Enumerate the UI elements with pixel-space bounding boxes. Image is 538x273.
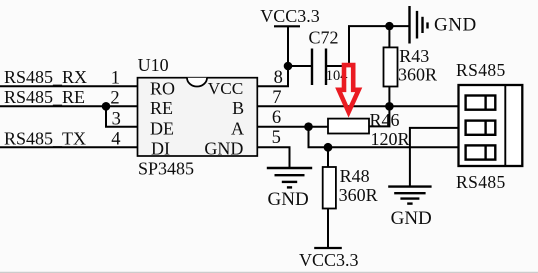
wire pin 5 to ground: [257, 147, 289, 168]
wire connector middle pin to ground: [410, 128, 459, 187]
svg-text:RS485_RE: RS485_RE: [4, 87, 85, 107]
svg-text:SP3485: SP3485: [138, 159, 194, 179]
svg-text:B: B: [232, 98, 244, 118]
svg-text:GND: GND: [204, 139, 243, 159]
svg-text:VCC3.3: VCC3.3: [260, 6, 320, 26]
svg-text:2: 2: [110, 89, 119, 109]
svg-text:RO: RO: [150, 78, 175, 98]
ground GND bottom-right: [388, 187, 431, 204]
svg-text:4: 4: [111, 129, 120, 149]
svg-text:RS485_RX: RS485_RX: [4, 67, 87, 87]
svg-text:6: 6: [272, 108, 281, 128]
junction node A branch: [304, 122, 313, 131]
power symbol VCC3.3 top: [274, 26, 300, 66]
svg-text:360R: 360R: [339, 185, 378, 205]
svg-text:U10: U10: [138, 55, 169, 75]
svg-text:5: 5: [272, 128, 281, 148]
bottom edge line: [0, 271, 538, 273]
svg-text:360R: 360R: [398, 64, 437, 84]
wire RS485_RX to pin 1: [0, 85, 138, 87]
svg-text:GND: GND: [268, 189, 309, 210]
ground GND under pin 5: [267, 168, 312, 187]
svg-text:R46: R46: [370, 110, 400, 130]
wire B line pin7 to connector: [257, 105, 458, 107]
wire RS485_TX to pin 4: [0, 146, 138, 148]
svg-text:DE: DE: [150, 118, 174, 138]
svg-text:RS485_TX: RS485_TX: [4, 129, 86, 149]
svg-text:RE: RE: [150, 98, 173, 118]
connector pin 3 terminal: [466, 145, 496, 159]
wire C72 to top GND rail: [326, 26, 410, 66]
connector J1 RS485 terminal block body: [459, 85, 523, 166]
svg-text:8: 8: [274, 68, 283, 88]
svg-text:DI: DI: [151, 139, 170, 159]
connector pin 1 terminal: [466, 96, 496, 110]
svg-text:R48: R48: [340, 166, 370, 186]
connector divider: [504, 85, 506, 166]
junction node VCC/pin8/C72: [284, 62, 293, 71]
junction node B/R43/R46: [385, 102, 394, 111]
svg-text:3: 3: [112, 109, 121, 129]
svg-text:7: 7: [272, 88, 281, 108]
wire VCC node to C72: [288, 65, 312, 67]
svg-text:R43: R43: [399, 46, 429, 66]
junction node A/R48: [324, 143, 333, 152]
svg-text:GND: GND: [391, 208, 432, 229]
junction node top rail / R43: [385, 22, 393, 30]
svg-text:C72: C72: [309, 28, 339, 48]
resistor R43: [384, 26, 398, 106]
svg-text:RS485: RS485: [456, 172, 506, 192]
power symbol VCC3.3 bottom: [314, 247, 342, 249]
ground GND top-right (rotated bars): [410, 6, 428, 44]
svg-text:VCC: VCC: [208, 79, 244, 98]
svg-text:RS485: RS485: [456, 60, 506, 80]
wire RS485_RE to pin 2: [0, 105, 138, 107]
IC notch: [187, 78, 207, 87]
wire RE net down to pin 3: [106, 106, 138, 126]
capacitor C72: [312, 49, 326, 86]
wire A line pin6: [257, 126, 328, 128]
resistor R46: [328, 106, 389, 133]
wire A branch down to connector row: [309, 127, 459, 148]
svg-text:VCC3.3: VCC3.3: [299, 250, 359, 270]
svg-text:A: A: [231, 118, 244, 138]
annotation red arrow: [339, 65, 359, 112]
svg-text:1: 1: [111, 68, 120, 88]
svg-text:120R: 120R: [371, 129, 410, 149]
junction dot on RE net: [102, 102, 111, 111]
resistor R48: [323, 147, 336, 247]
svg-text:GND: GND: [434, 15, 477, 36]
IC U10 SP3485 body: [138, 78, 258, 156]
connector pin 2 terminal: [466, 121, 496, 135]
wire pin 8 to VCC node: [257, 66, 288, 86]
